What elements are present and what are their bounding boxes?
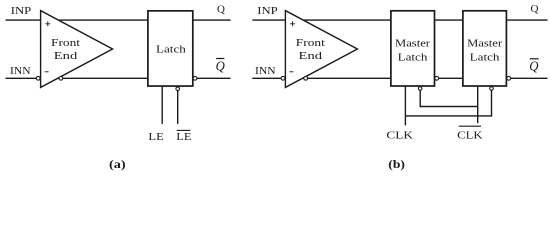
pin CLKbar bubble box1 (b) [418, 87, 422, 91]
svg-text:Master: Master [467, 38, 502, 50]
svg-text:INP: INP [257, 5, 278, 17]
svg-text:CLK: CLK [457, 130, 483, 142]
minus input mark (b) [289, 71, 293, 73]
Qbar output bubble (b) [507, 76, 511, 80]
svg-text:Front: Front [51, 37, 80, 49]
minus input mark (a) [45, 71, 49, 73]
svg-text:Q: Q [529, 60, 538, 75]
master latch box 2 (b) [463, 11, 507, 86]
plus input mark (b) [290, 21, 295, 26]
inverting input bubble (b) [281, 76, 285, 80]
plus input mark (a) [45, 21, 50, 26]
pin LEbar (a) [177, 91, 179, 124]
wire between latches bottom (b) [439, 77, 463, 79]
pin CLK box1 (b) [404, 86, 406, 125]
op-amp front end triangle (b) [285, 11, 357, 88]
svg-text:Q: Q [217, 3, 225, 15]
svg-text:LE: LE [176, 131, 192, 143]
svg-text:INN: INN [255, 65, 276, 77]
latch box (a) [148, 11, 193, 86]
wire Q output (a) [193, 19, 231, 21]
op-amp front end triangle (a) [41, 11, 113, 88]
pin CLKbar box1 (b) [419, 90, 421, 107]
wire CLKbar bus (b) [420, 106, 478, 108]
svg-text:INP: INP [11, 5, 32, 17]
pin LE (a) [161, 86, 163, 124]
svg-text:(b): (b) [388, 157, 405, 171]
wire INP to front end and master latch (b) [252, 19, 391, 21]
inverted output bubble (a) [59, 76, 63, 80]
pin CLK bubble box2 (b) [490, 87, 494, 91]
svg-text:Master: Master [395, 38, 430, 50]
svg-text:Latch: Latch [470, 51, 500, 63]
wire between latches top (b) [435, 19, 463, 21]
svg-text:Q: Q [531, 3, 539, 15]
svg-text:End: End [299, 50, 323, 62]
master latch box 1 (b) [391, 11, 435, 86]
wire Q output (b) [506, 19, 547, 21]
svg-text:End: End [54, 50, 78, 62]
wire Qbar output (a) [197, 77, 231, 79]
pin CLKbar box2 (b) [477, 86, 479, 123]
svg-text:CLK: CLK [386, 130, 413, 142]
inverted output bubble (b) [304, 76, 308, 80]
wire INP to front end and latch (a) [6, 19, 149, 21]
svg-text:Q: Q [216, 60, 225, 75]
wire INN to front end and latch (a) [6, 77, 149, 79]
wire INN to front end and master latch (b) [252, 77, 391, 79]
svg-text:Front: Front [296, 37, 325, 49]
box1 inverted output bubble (b) [435, 76, 439, 80]
svg-text:Latch: Latch [156, 44, 186, 56]
inverting input bubble (a) [36, 76, 40, 80]
pin LEbar bubble (a) [176, 87, 180, 91]
svg-text:LE: LE [148, 131, 164, 143]
svg-text:Latch: Latch [398, 51, 428, 63]
pin CLK box2 (b) [491, 90, 493, 116]
Qbar output bubble (a) [193, 76, 197, 80]
wire CLK bus (b) [405, 115, 491, 117]
svg-text:(a): (a) [109, 157, 126, 171]
wire Qbar output (b) [511, 77, 548, 79]
svg-text:INN: INN [10, 65, 31, 77]
